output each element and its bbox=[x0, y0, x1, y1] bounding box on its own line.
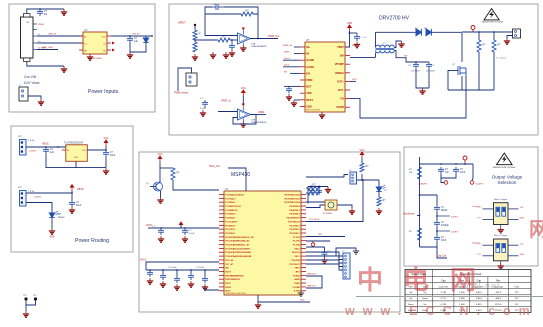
warning triangle HV bbox=[484, 9, 499, 20]
wire left rail bottom bbox=[420, 246, 438, 248]
svg-text:P4.6/TBOUTH: P4.6/TBOUTH bbox=[286, 217, 300, 220]
svg-text:MSP430G2553IPW28: MSP430G2553IPW28 bbox=[226, 293, 247, 295]
ground led bbox=[49, 228, 55, 234]
ic U3 DRV2700 bbox=[305, 42, 345, 112]
svg-text:P1.6/TA0.1: P1.6/TA0.1 bbox=[225, 217, 236, 220]
feedback wire U2B bbox=[233, 115, 256, 125]
ground secondary bbox=[398, 41, 404, 47]
capacitor C2 bbox=[127, 36, 133, 43]
wire u4 out bbox=[87, 149, 106, 151]
capacitor C26 33nF bbox=[434, 235, 440, 242]
svg-text:REXT: REXT bbox=[306, 98, 313, 102]
svg-text:P1.0TA: P1.0TA bbox=[293, 236, 300, 239]
svg-text:P1.4/SMCLK: P1.4/SMCLK bbox=[225, 209, 238, 212]
pwr flag caps rail bbox=[179, 222, 183, 228]
svg-text:GND: GND bbox=[520, 254, 525, 256]
svg-text:P1.2TA: P1.2TA bbox=[293, 244, 300, 247]
capacitor C13 left mid bbox=[158, 228, 164, 235]
wire vref to +IN bbox=[218, 111, 238, 113]
svg-text:P2.5/TA1.2: P2.5/TA1.2 bbox=[290, 232, 301, 235]
svg-text:0.1uF: 0.1uF bbox=[200, 108, 206, 110]
label VCC bbox=[104, 140, 108, 146]
svg-text:RST/NMI/SBWTDIO: RST/NMI/SBWTDIO bbox=[225, 275, 244, 277]
ground C14 bbox=[182, 236, 188, 242]
wire gain0 bbox=[283, 59, 300, 61]
capacitor C19 bbox=[202, 276, 208, 283]
wire input node bbox=[194, 25, 196, 30]
capacitor C6 vdd bbox=[284, 85, 296, 87]
capacitor C21 xtal bbox=[316, 188, 322, 195]
svg-text:P3.2/UCB0SOMI/SCL_A7: P3.2/UCB0SOMI/SCL_A7 bbox=[225, 244, 250, 247]
svg-text:1-WLB: 1-WLB bbox=[29, 151, 36, 153]
wire caps bottom to tp bbox=[441, 174, 444, 183]
wire transformer primary top to rail bbox=[375, 32, 377, 47]
svg-text:465.4: 465.4 bbox=[495, 298, 501, 300]
svg-text:0.1uF: 0.1uF bbox=[189, 233, 195, 235]
transformer T1 bbox=[376, 45, 395, 53]
testpoint TP2 bbox=[34, 297, 37, 300]
svg-text:1-WLB: 1-WLB bbox=[34, 197, 41, 199]
wire caps rail bbox=[148, 227, 219, 229]
capacitor C7 bst bbox=[350, 32, 358, 34]
svg-text:P1.0/TA0CLK/ACLK: P1.0/TA0CLK/ACLK bbox=[225, 193, 244, 196]
wire q2 emitter bbox=[160, 191, 162, 197]
svg-text:GND: GND bbox=[520, 218, 525, 220]
feedback resistor R5 bbox=[241, 12, 253, 16]
svg-text:VIN_5V: VIN_5V bbox=[132, 34, 140, 36]
op-amp U2A bbox=[238, 28, 251, 46]
svg-text:VREF: VREF bbox=[284, 52, 290, 54]
wire HV rail bbox=[432, 31, 462, 33]
wire bottom exit bbox=[258, 295, 310, 302]
wire conn to led bbox=[357, 179, 380, 181]
ground J2 bbox=[38, 99, 44, 105]
svg-text:ECCN.net: ECCN.net bbox=[452, 281, 501, 291]
svg-text:5.0V Vmax: 5.0V Vmax bbox=[24, 81, 40, 85]
pins U1 bbox=[79, 35, 83, 37]
capacitor C18 bbox=[188, 273, 194, 280]
wire top rail bbox=[376, 31, 417, 33]
svg-text:USB_5V: USB_5V bbox=[48, 34, 57, 36]
pins SW2 bbox=[483, 244, 494, 246]
svg-text:Power Inputs: Power Inputs bbox=[88, 89, 119, 95]
svg-text:DRV2700RGP: DRV2700RGP bbox=[306, 110, 321, 112]
capacitor C17 bbox=[174, 276, 180, 283]
svg-text:P3.5/UCA0RXD/UCA0SOMI: P3.5/UCA0RXD/UCA0SOMI bbox=[225, 255, 251, 258]
ground C6 bbox=[286, 94, 292, 100]
wire D1 bottom bbox=[130, 45, 146, 52]
svg-text:电: 电 bbox=[403, 265, 429, 295]
svg-text:P3.4_MOut: P3.4_MOut bbox=[309, 218, 320, 221]
section box MSP430 bbox=[139, 152, 400, 312]
svg-text:SW: SW bbox=[340, 54, 345, 58]
wire dvcc rail down bbox=[146, 262, 219, 270]
wire r10 out to ic bbox=[173, 180, 219, 190]
svg-text:OUT-: OUT- bbox=[338, 88, 344, 92]
svg-text:GND: GND bbox=[300, 300, 305, 302]
svg-text:680pF: 680pF bbox=[441, 210, 448, 212]
resistor R2 input divider bbox=[193, 30, 197, 40]
resistor R4 series bbox=[218, 38, 230, 42]
svg-text:PWM: PWM bbox=[306, 78, 312, 82]
svg-text:2x4(P?): 2x4(P?) bbox=[451, 217, 458, 219]
section box Power Inputs bbox=[9, 4, 155, 112]
wire top rail output bbox=[420, 163, 474, 165]
svg-text:BST: BST bbox=[306, 85, 312, 89]
right pins DRV2700 bbox=[345, 46, 350, 48]
svg-text:2x1M(P?): 2x1M(P?) bbox=[418, 183, 427, 185]
wire rst rows bbox=[306, 236, 345, 238]
svg-text:GAIN0: GAIN0 bbox=[306, 58, 314, 62]
capacitor C8 HV bbox=[413, 62, 419, 69]
svg-text:DANGER HIGH VOLTAGE: DANGER HIGH VOLTAGE bbox=[493, 166, 516, 169]
svg-text:U?A: U?A bbox=[251, 42, 256, 45]
connector J2 power jack bbox=[19, 87, 28, 101]
ground D5 bbox=[376, 208, 382, 214]
svg-text:Raise / Upper: Raise / Upper bbox=[494, 198, 508, 201]
capacitor C9 HV bbox=[426, 62, 432, 69]
pwr flag q2 bbox=[158, 156, 162, 162]
svg-text:1nF: 1nF bbox=[445, 172, 450, 174]
wire xout bbox=[306, 205, 325, 208]
svg-text:RST: RST bbox=[296, 271, 301, 273]
wire VBUS to U1 bbox=[37, 35, 83, 37]
wire jp1 out bbox=[26, 146, 66, 148]
connector HV out bbox=[513, 29, 521, 38]
resistor R7 hv bbox=[492, 40, 496, 52]
resistor R17 led bbox=[378, 194, 380, 197]
svg-text:P4.3/TB0.0: P4.3/TB0.0 bbox=[289, 205, 300, 208]
wire led down bbox=[51, 220, 53, 228]
svg-text:Cap: Cap bbox=[441, 280, 446, 283]
ground xtal caps bbox=[325, 187, 331, 193]
svg-text:GAIN1: GAIN1 bbox=[306, 65, 314, 69]
svg-text:1uF 250V: 1uF 250V bbox=[426, 71, 435, 73]
wire chain 2 bbox=[436, 212, 438, 220]
testpoint tp4 bbox=[470, 181, 474, 185]
resistor R15 left bbox=[418, 167, 422, 179]
ground C2 bbox=[127, 52, 133, 58]
capacitor C25 4700pF bbox=[434, 220, 440, 227]
svg-text:AVSS: AVSS bbox=[294, 278, 300, 281]
wire fb bbox=[350, 76, 466, 118]
wire gain1 bbox=[283, 66, 300, 68]
svg-text:中: 中 bbox=[357, 265, 383, 295]
wire out+ bbox=[350, 80, 356, 82]
wire mid rail bbox=[420, 194, 438, 196]
feedback wire upper bbox=[251, 14, 259, 39]
ground C19 bbox=[202, 284, 208, 290]
ground C15 bbox=[147, 278, 153, 284]
ground shield bbox=[61, 9, 67, 15]
svg-text:SW: SW bbox=[404, 56, 407, 58]
diode D3 bbox=[426, 29, 431, 36]
svg-text:P4.7/TBCLK: P4.7/TBCLK bbox=[288, 220, 300, 223]
ground power routing bbox=[103, 168, 109, 174]
wire xin bbox=[306, 201, 325, 203]
svg-text:GND: GND bbox=[306, 104, 312, 108]
svg-text:P3.0/UCB0STE/UCA0CLK_A5: P3.0/UCB0STE/UCA0CLK_A5 bbox=[225, 236, 254, 239]
capacitor C22 bbox=[438, 167, 444, 174]
svg-text:P4.5/TB0.2: P4.5/TB0.2 bbox=[289, 213, 300, 216]
branch tp5 bbox=[437, 215, 450, 217]
resistor R12 row bbox=[308, 186, 320, 190]
wire q2 base bbox=[150, 186, 156, 188]
svg-text:HVREG: HVREG bbox=[335, 71, 344, 75]
capacitor C14 left mid bbox=[182, 228, 188, 235]
ground bottom left dark bbox=[298, 293, 304, 296]
svg-text:P3.7_A7: P3.7_A7 bbox=[225, 263, 234, 266]
svg-text:DVCC: DVCC bbox=[140, 260, 147, 262]
svg-text:网: 网 bbox=[529, 219, 543, 241]
svg-text:Green: Green bbox=[58, 216, 65, 219]
resistor R13 row bbox=[308, 191, 320, 195]
svg-text:SBWTDIO: SBWTDIO bbox=[307, 274, 317, 276]
svg-text:P1.3/ADC10CLK: P1.3/ADC10CLK bbox=[225, 205, 241, 208]
capacitor C20 xtal bbox=[309, 188, 315, 195]
testpoint input bbox=[194, 24, 196, 26]
capacitor C11 bbox=[103, 150, 109, 157]
svg-text:P3.1/UCB0SIMO/SDA_A6: P3.1/UCB0SIMO/SDA_A6 bbox=[225, 240, 250, 243]
svg-text:P4.1/TB0/CCI1A: P4.1/TB0/CCI1A bbox=[284, 197, 300, 200]
wire J1 shield to ground bbox=[27, 9, 64, 14]
svg-text:P1.2/TA0.1: P1.2/TA0.1 bbox=[225, 201, 236, 204]
wire y1 right gnd bbox=[337, 205, 352, 208]
ground Q2 bbox=[157, 197, 163, 203]
svg-text:2x4(P?): 2x4(P?) bbox=[451, 232, 458, 234]
testpoint rst bbox=[311, 243, 314, 246]
ground C27 rst bbox=[321, 257, 327, 263]
label U5V bbox=[70, 185, 74, 191]
wire C2 down bbox=[129, 43, 131, 52]
svg-text:VCC: VCC bbox=[157, 153, 162, 156]
diode D2 bbox=[416, 29, 421, 36]
ground C3 bbox=[229, 50, 235, 56]
wire chain 3 bbox=[436, 227, 438, 235]
svg-text:TA1CLK: TA1CLK bbox=[292, 251, 300, 254]
svg-text:DVCC: DVCC bbox=[225, 283, 231, 285]
ground U1 bbox=[87, 54, 93, 60]
bottom cap bank wire bbox=[146, 269, 219, 271]
svg-text:3.717: 3.717 bbox=[441, 298, 447, 300]
svg-text:DVSS: DVSS bbox=[294, 283, 300, 285]
table grid lines bbox=[405, 270, 531, 313]
ground J1 bbox=[61, 66, 67, 72]
svg-text:Con VIN: Con VIN bbox=[24, 75, 37, 79]
crystal Y1 bbox=[325, 200, 337, 210]
capacitor C24 680pF bbox=[434, 205, 440, 212]
transistor Q2 bbox=[154, 182, 163, 191]
testpoint TP1 bbox=[24, 297, 27, 300]
wire tmux bbox=[228, 168, 246, 191]
svg-text:VBUS: VBUS bbox=[77, 188, 84, 191]
wire HV output rail bbox=[462, 31, 514, 33]
section box amplifier + DRV2700 bbox=[169, 4, 538, 135]
svg-text:Output Voltage: Output Voltage bbox=[492, 175, 523, 180]
ground Y1 bbox=[349, 208, 355, 214]
mosfet Q1 bbox=[458, 66, 466, 76]
red circle marker output bbox=[463, 156, 467, 160]
svg-text:VDD: VDD bbox=[347, 22, 352, 25]
led D4 green bbox=[49, 211, 55, 220]
svg-text:C? 10uF: C? 10uF bbox=[196, 267, 205, 269]
ground C16 bbox=[160, 281, 166, 287]
watermark underline bbox=[356, 296, 543, 298]
svg-text:P1.5/TA0.0: P1.5/TA0.0 bbox=[225, 213, 236, 216]
svg-text:P2.6/XIN: P2.6/XIN bbox=[292, 260, 301, 262]
svg-text:P3.3/UCB0CLK/UCA0STE: P3.3/UCB0CLK/UCA0STE bbox=[225, 247, 250, 250]
svg-text:P2.2/TA1.1: P2.2/TA1.1 bbox=[225, 232, 236, 235]
svg-text:P1.7/CAOUT: P1.7/CAOUT bbox=[225, 220, 238, 223]
wire secondary top to ground bbox=[394, 41, 401, 48]
wire testpoints bbox=[25, 299, 27, 311]
led D5 bbox=[378, 180, 380, 185]
pwr flag vbst bbox=[348, 25, 352, 31]
svg-text:VPUMP: VPUMP bbox=[335, 62, 344, 66]
connector JP2 bbox=[20, 191, 27, 207]
svg-text:TEST: TEST bbox=[295, 268, 301, 270]
svg-text:1.2k: 1.2k bbox=[520, 207, 524, 209]
svg-text:AVCC: AVCC bbox=[146, 224, 153, 227]
pwr flag right bbox=[360, 152, 364, 158]
svg-text:OPA2350EA/2D: OPA2350EA/2D bbox=[251, 45, 267, 48]
svg-text:TLV70033DCKR: TLV70033DCKR bbox=[64, 141, 83, 145]
zener diode D1 bbox=[143, 36, 149, 45]
feedback wire cap branch bbox=[205, 7, 212, 14]
capacitor C3 filter bbox=[229, 43, 235, 50]
vertical rail 3 lower bbox=[493, 52, 495, 90]
svg-text:IN-: IN- bbox=[306, 52, 310, 56]
wire vbst vertical bbox=[349, 31, 351, 47]
svg-text:MSP430: MSP430 bbox=[231, 172, 250, 178]
ground DRV2700 bottom bbox=[319, 112, 325, 118]
wire R4 to +IN bbox=[230, 39, 238, 41]
svg-text:SBWTCK: SBWTCK bbox=[307, 286, 316, 288]
svg-text:DVSS: DVSS bbox=[225, 287, 231, 289]
svg-text:GND: GND bbox=[74, 157, 79, 159]
resistor R6 hv bbox=[477, 40, 481, 52]
capacitor C12 bbox=[69, 200, 75, 207]
svg-text:A VSS: A VSS bbox=[294, 290, 301, 293]
svg-text:VBST: VBST bbox=[352, 45, 358, 47]
wire opamp output bbox=[251, 38, 279, 40]
svg-text:1M: 1M bbox=[409, 172, 412, 174]
wire cap rst bbox=[306, 246, 325, 248]
svg-text:XIN: XIN bbox=[225, 268, 229, 270]
svg-text:Gain0: Gain0 bbox=[284, 58, 290, 60]
resistor R11 bbox=[360, 163, 364, 172]
svg-text:Lower_1: Lower_1 bbox=[472, 206, 481, 208]
wire q2 collector bbox=[159, 162, 161, 182]
svg-text:VBUS: VBUS bbox=[38, 24, 44, 26]
wire sbw bbox=[306, 276, 322, 288]
wire J2 to ground bbox=[28, 96, 41, 99]
connector P4 right mid bbox=[343, 253, 350, 279]
svg-text:VBUS: VBUS bbox=[42, 143, 49, 146]
svg-text:TA1.1: TA1.1 bbox=[294, 255, 300, 258]
svg-text:XOUT: XOUT bbox=[225, 271, 231, 273]
svg-text:FB: FB bbox=[340, 97, 344, 101]
wire P4 top bracket bbox=[336, 248, 356, 256]
connector PWM jumper bbox=[186, 73, 197, 86]
svg-text:RST: RST bbox=[318, 234, 323, 236]
vertical rail 1 bbox=[461, 33, 463, 62]
svg-text:3.548: 3.548 bbox=[459, 298, 465, 300]
svg-text:VoutSense: VoutSense bbox=[403, 213, 415, 216]
svg-text:6.813: 6.813 bbox=[476, 292, 482, 294]
red circle marker HV bbox=[471, 26, 475, 30]
wire rext bbox=[294, 99, 300, 101]
wire bottom rail power routing bbox=[46, 154, 106, 168]
svg-text:Selection: Selection bbox=[498, 180, 517, 185]
svg-text:C? 1uF: C? 1uF bbox=[360, 37, 367, 39]
svg-text:U?B: U?B bbox=[251, 119, 256, 121]
svg-text:P4.2/TB0/CCI2A: P4.2/TB0/CCI2A bbox=[284, 201, 300, 204]
svg-text:IN+: IN+ bbox=[306, 45, 311, 49]
svg-text:1.2k: 1.2k bbox=[520, 244, 524, 246]
wire long right bbox=[306, 180, 363, 222]
watermark chinese characters bbox=[357, 219, 543, 295]
vertical rail left bbox=[419, 157, 421, 247]
warning triangle output bbox=[497, 153, 513, 165]
svg-text:DANGER HIGH VOLTAGE: DANGER HIGH VOLTAGE bbox=[482, 20, 504, 23]
svg-text:OUT+: OUT+ bbox=[337, 79, 344, 83]
capacitor C1 bbox=[37, 9, 43, 16]
testpoint tp3 bbox=[444, 181, 448, 185]
svg-text:P4.0/TB0/CCI0A: P4.0/TB0/CCI0A bbox=[284, 193, 300, 196]
wire gate bbox=[450, 70, 458, 72]
left pins MSP430 bbox=[219, 194, 224, 196]
vertical rail 2 lower bbox=[478, 52, 480, 90]
wire jumper bbox=[178, 68, 192, 91]
svg-text:PWM_Out: PWM_Out bbox=[268, 35, 279, 38]
svg-text:P2.0/TA1.0: P2.0/TA1.0 bbox=[225, 224, 236, 227]
svg-text:VCORE: VCORE bbox=[293, 287, 301, 289]
wire to opamp bbox=[195, 39, 218, 41]
svg-text:Lower (nF): Lower (nF) bbox=[439, 286, 449, 289]
svg-text:1 3.3V: 1 3.3V bbox=[28, 140, 35, 142]
resistor R10 load bbox=[171, 168, 175, 180]
svg-text:447.8: 447.8 bbox=[495, 292, 501, 294]
wire r10 top bbox=[160, 167, 173, 169]
svg-text:TMux_Out: TMux_Out bbox=[209, 165, 220, 168]
ground P4 dark bbox=[353, 251, 359, 254]
wire avss bbox=[205, 287, 219, 290]
wire in- label bbox=[294, 53, 300, 55]
svg-text:P2.3/TA1.0: P2.3/TA1.0 bbox=[290, 224, 301, 227]
pins SW1 bbox=[483, 208, 494, 210]
ground HV caps bbox=[419, 88, 425, 94]
svg-text:DVSS2: DVSS2 bbox=[293, 275, 301, 277]
svg-text:INPUT: INPUT bbox=[178, 21, 186, 25]
ic U5 MSP430 body bbox=[224, 191, 301, 295]
svg-text:DRV2700 HV: DRV2700 HV bbox=[379, 16, 410, 22]
ground hv connector bbox=[504, 38, 510, 44]
svg-text:VCC: VCC bbox=[241, 87, 246, 90]
svg-text:10uF: 10uF bbox=[110, 155, 116, 157]
wire boost sw bbox=[350, 56, 376, 58]
capacitor C5 vref bbox=[202, 100, 208, 107]
section box Output Voltage Selection bbox=[404, 147, 538, 266]
capacitor C15 bbox=[147, 270, 153, 277]
ground msp bottom bbox=[255, 302, 261, 308]
svg-text:Raise / Upper: Raise / Upper bbox=[494, 234, 508, 237]
wire D- net bbox=[37, 42, 83, 44]
wire in+ label bbox=[294, 46, 300, 48]
svg-text:P1.1TA: P1.1TA bbox=[293, 240, 300, 243]
nc marks U1 bbox=[112, 42, 115, 45]
section box Power Routing bbox=[11, 126, 133, 252]
